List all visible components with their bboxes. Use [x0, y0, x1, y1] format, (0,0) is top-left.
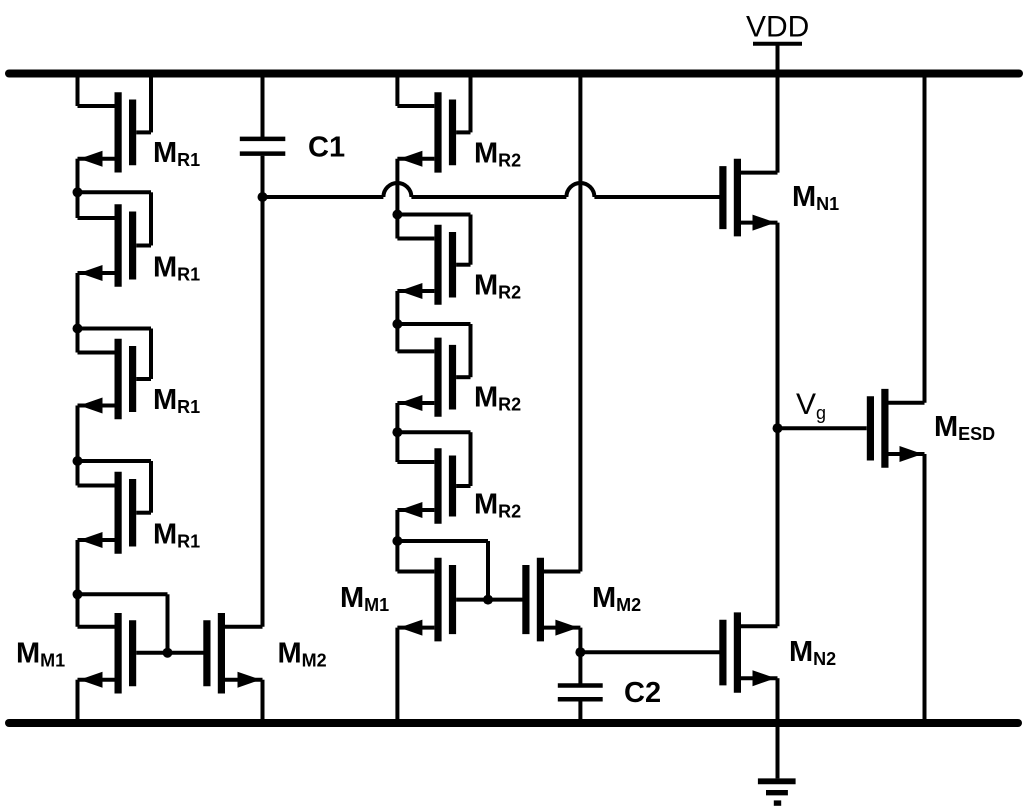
wire: MN1 source down to Vg node and MN2 drain [776, 223, 780, 627]
transistor MN2 (pull-down) [723, 612, 778, 692]
wire: MR1a drain down to node 1 and MR1b source [76, 159, 80, 218]
transistor MM2 (left mirror output) [207, 613, 263, 694]
wire: MR2b drain down to node 2m [395, 291, 399, 351]
transistor MR1 (a, top of left stack) [78, 92, 152, 172]
wire: Vg node to MESD gate [778, 426, 867, 430]
transistor MR2 (c, middle stack) [397, 338, 470, 417]
node X wire: C1 bottom to MN1 gate with crossover hops [263, 183, 721, 197]
transistor MM1 (left mirror, diode-connected) [78, 613, 133, 694]
node: middle mirror gate junction [483, 595, 493, 605]
VDD rail (top bus) [9, 70, 1019, 78]
wire: MR2a gate to VDD rail [469, 74, 473, 133]
wire: MR1b drain down to node 2 and MR1c source [76, 273, 80, 353]
wire: node 1 to MR1b gate [78, 192, 152, 245]
node Vg [773, 423, 783, 433]
wire: node 2m to MR2c gate [397, 324, 470, 377]
transistor MN1 (clamp driver) [723, 159, 778, 237]
VSS rail (bottom bus) [9, 719, 1018, 727]
wire: MM2 source to VSS rail [261, 680, 265, 723]
wire: left column from VDD rail to MR1a source [76, 74, 80, 107]
wire: MN1 drain to VDD rail (VDD stub) [776, 46, 780, 173]
transistor MM1 (middle mirror, diode-connected) [397, 558, 452, 642]
wire: MM2 drain up to node X (C1 bottom) [261, 156, 265, 627]
wire: node 1m to MR2b gate [397, 215, 470, 265]
node 1 (left stack) [73, 187, 83, 197]
transistor MR1 (d, left stack) [78, 472, 152, 554]
wire: node 3 to MR1d gate [78, 461, 152, 513]
wire: MM1 source to VSS rail [76, 680, 80, 723]
wire: MESD drain up to VDD rail [923, 74, 927, 403]
wire: node 3m to MR2d gate [397, 432, 470, 486]
wire: MR1c drain down to node 3 and MR1d source [76, 406, 80, 486]
wire: node 2 to MR1c gate [78, 329, 152, 380]
node 4m (middle stack bottom) [392, 536, 402, 546]
transistor MR1 (c, left stack) [78, 339, 152, 420]
node 2 (left stack) [73, 324, 83, 334]
transistor MESD (ESD clamp device) [870, 389, 924, 468]
wire: MR2c drain down to node 3m [395, 403, 399, 462]
VDD supply symbol [753, 44, 802, 74]
node 3 (left stack) [73, 456, 83, 466]
wire: MR1a gate to VDD rail [149, 74, 153, 133]
wire: MM2 (middle) drain up to VDD rail [578, 74, 582, 572]
wire: MN2 source to VSS rail [776, 678, 780, 723]
node: C2 / MN2 gate junction [575, 647, 585, 657]
wire: middle column from VDD rail to MR2a source [395, 74, 399, 107]
transistor MR1 (b, left stack) [78, 204, 152, 287]
svg-text:C1: C1 [308, 132, 345, 164]
transistor MR2 (a, top of middle stack) [397, 92, 470, 172]
transistor MR2 (d, middle stack) [397, 448, 470, 524]
svg-text:VDD: VDD [746, 11, 809, 44]
node: left mirror gate junction [163, 648, 173, 658]
wire: MESD source down to VSS rail [923, 454, 927, 723]
transistor MM2 (middle mirror output) [526, 558, 581, 642]
node 3m (middle stack) [392, 427, 402, 437]
node 2m (middle stack) [392, 319, 402, 329]
wire: MM2 (middle) source down to node C2 [578, 628, 582, 686]
wire: gate line MM1-MM2 (left mirror) [136, 651, 205, 655]
node 4 (left stack bottom) [73, 589, 83, 599]
wire: MR2d drain down to node 4m and MM1 drain (middle) [395, 510, 399, 572]
node 1m (middle stack) [392, 210, 402, 220]
wire: MR2a drain down across node X to node 1m [395, 159, 399, 239]
wire: MR1d drain down to node 4 and MM1 drain [76, 540, 80, 627]
wire: node 4 to MM1/MM2 gates [78, 594, 168, 652]
svg-text:C2: C2 [624, 677, 661, 709]
node X junction at C1 bottom [258, 192, 268, 202]
wire: gate line MM1-MM2 (middle mirror) [456, 598, 525, 602]
wire: MM1 (middle) source to VSS rail [395, 628, 399, 723]
wire: node 4m to MM1/MM2 gates (middle mirror) [397, 541, 488, 600]
transistor MR2 (b, middle stack) [397, 225, 470, 305]
capacitor C1 [240, 74, 285, 154]
wire: node C2 to MN2 gate [580, 650, 720, 654]
ground symbol [758, 723, 796, 803]
capacitor C2 [558, 686, 603, 724]
